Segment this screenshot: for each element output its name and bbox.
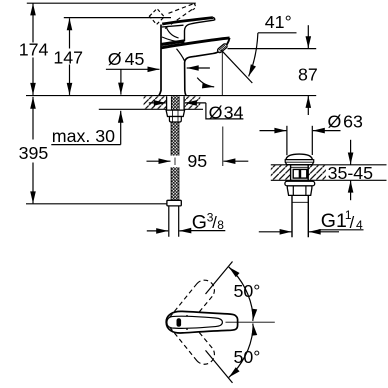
drain slab bottom line [271, 179, 387, 181]
svg-text:87: 87 [298, 64, 318, 84]
dimension 95 [147, 151, 249, 171]
svg-text:8: 8 [217, 218, 224, 232]
handle plan view outline [166, 311, 237, 333]
drain tailpipe [292, 195, 308, 237]
drain cap seam [285, 161, 313, 163]
50 degree stop line lower [206, 350, 233, 383]
drain tailpipe seam [292, 201, 308, 203]
flexible braided hose upper [171, 122, 179, 156]
body blend curve [177, 49, 185, 61]
svg-text:Ø34: Ø34 [209, 103, 244, 123]
faucet body right edge and spout underside [185, 52, 218, 95]
dashed raised lever back end [149, 9, 164, 25]
lever tip [213, 18, 215, 21]
svg-text:395: 395 [19, 143, 49, 163]
dimension 41 degrees [221, 12, 297, 83]
spout outlet drop line [221, 51, 223, 96]
svg-text:147: 147 [53, 47, 83, 67]
deck slab bottom line [99, 108, 203, 110]
swivel arc under spout [197, 78, 214, 87]
drain window right [301, 169, 307, 178]
dimension 395 [19, 97, 49, 204]
svg-text:174: 174 [19, 39, 49, 59]
handle indicator slot [177, 318, 182, 327]
arc 50 degrees upper [229, 267, 253, 314]
dimension max. 30 [51, 111, 120, 146]
drain locknut facets [293, 186, 306, 195]
dimension Ø63 [260, 112, 364, 156]
lever top edge [162, 18, 213, 24]
drain slab hatching left [271, 165, 291, 180]
threaded stud in shank [171, 96, 179, 110]
label G1 1/4 [259, 208, 364, 232]
wire lever-top extension line [64, 17, 171, 19]
svg-text:max. 30: max. 30 [52, 126, 115, 146]
wire bottom extension line (hose end) [26, 203, 167, 205]
dashed raised lever edge 2 [165, 10, 192, 29]
hose break gap [174, 158, 176, 166]
spout outlet drop line below deck [222, 127, 224, 167]
drain cap brim [285, 160, 314, 165]
flexible braided hose lower [171, 167, 179, 200]
svg-text:G1: G1 [321, 210, 347, 232]
hose end nut [167, 200, 181, 206]
arrow to centerline upper [252, 309, 255, 321]
arc 50 degrees lower [229, 330, 253, 377]
svg-text:Ø45: Ø45 [108, 49, 145, 69]
svg-text:50°: 50° [234, 281, 261, 301]
G3/8 tube [169, 206, 179, 237]
stud lines through nut [173, 110, 178, 122]
dimension 87 [228, 25, 318, 115]
dashed raised lever tip [193, 4, 196, 10]
lever bottom edge [185, 20, 215, 41]
drain slab top line [271, 164, 387, 166]
drain window left [293, 169, 299, 178]
spout top edge [161, 38, 230, 48]
wire top extension line (overall height reference) [27, 2, 196, 4]
drain body in slab [291, 165, 309, 181]
drain locknut [287, 186, 312, 196]
deck hatching left of shank [144, 96, 166, 108]
arrow to centerline lower [252, 324, 255, 336]
svg-text:50°: 50° [234, 347, 261, 367]
drain slab hatching right [308, 165, 326, 180]
aerator [217, 43, 228, 54]
neck inner curve [167, 28, 179, 38]
shank tube below deck [167, 96, 185, 110]
dimension 174 [19, 3, 49, 95]
svg-text:95: 95 [187, 151, 207, 171]
spout tip face [223, 38, 230, 49]
drain washer [285, 181, 315, 186]
svg-text:Ø63: Ø63 [328, 112, 364, 132]
drain body top seam [291, 166, 309, 168]
neck top edge [162, 25, 184, 27]
handle pivot dots [186, 315, 188, 317]
label G3/8 [147, 210, 226, 233]
dashed handle rotated down [170, 327, 215, 364]
dashed raised lever edge 1 [169, 4, 195, 14]
dimension Ø45 [106, 49, 210, 95]
deck slab top line [26, 95, 316, 97]
handle centerline [226, 321, 275, 323]
drain cap dome [286, 154, 313, 160]
svg-text:41°: 41° [265, 12, 292, 32]
faucet neck bottom wedge [162, 41, 185, 45]
dimension Ø34 [149, 103, 244, 123]
faucet body left edge [159, 25, 161, 96]
dimension 147 [53, 18, 83, 95]
deck hatching right of shank [185, 96, 201, 108]
handle plan inner line [167, 316, 223, 328]
mounting nut [166, 110, 185, 116]
dimension 35-45 [328, 140, 374, 200]
lock washer [169, 117, 181, 123]
svg-text:35-45: 35-45 [328, 163, 374, 183]
50 degree stop line upper [206, 262, 233, 295]
dashed handle rotated up [170, 280, 215, 317]
